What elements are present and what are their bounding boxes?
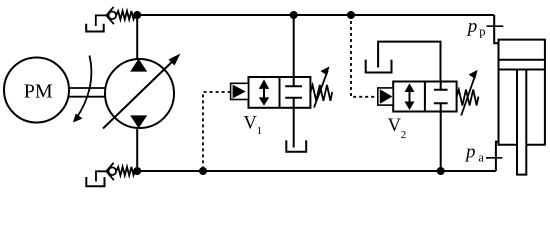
valve V2 drain tank (366, 60, 392, 73)
wire V2 bottom connect (440, 112, 442, 172)
valve V1 spring arrow head (321, 66, 330, 75)
node top pump junction (133, 11, 141, 19)
pump P1 circle (105, 59, 174, 128)
relief valve RV2 tank (86, 177, 104, 186)
valve V1 pilot line dashed (203, 92, 231, 171)
valve V2 body (393, 82, 456, 112)
valve V2 pilot line dashed (351, 15, 378, 97)
svg-text:1: 1 (257, 125, 263, 137)
relief valve RV2 spring (116, 167, 135, 176)
svg-text:p: p (479, 25, 485, 39)
valve V1 pilot box (231, 83, 249, 99)
relief valve RV1 tank (86, 24, 104, 32)
motor PM circle (4, 58, 69, 123)
valve V2 spring arrow head (469, 70, 478, 79)
valve V1 pilot triangle (233, 85, 246, 99)
pump triangle bottom (130, 115, 147, 128)
wire p_a port riser (496, 142, 500, 171)
pump diagonal arrow (103, 58, 177, 129)
valve V1 spring adjust arrow (314, 71, 328, 108)
node V2 pilot junction (347, 11, 355, 19)
relief valve RV2 drain wire (96, 171, 107, 181)
pump triangle top (130, 59, 147, 72)
relief valve RV1 ball (109, 12, 117, 20)
wire pump top (136, 15, 138, 60)
svg-text:p: p (466, 16, 478, 37)
valve V1 spring (310, 85, 332, 101)
wire p_p port drop (494, 15, 499, 43)
valve V1 arrow heads (259, 79, 269, 89)
node V2 bottom junction (437, 167, 445, 175)
valve V2 blocked ports (434, 82, 448, 112)
wire V2 drain to tank (378, 42, 440, 82)
valve V1 double arrow (263, 83, 265, 102)
relief valve RV1 spring (116, 11, 135, 20)
svg-text:V: V (244, 113, 258, 133)
pump arrow head (169, 54, 181, 66)
rotation arrow head (73, 114, 83, 123)
valve V1 blocked ports (285, 77, 302, 108)
valve V1 body (249, 77, 311, 108)
cylinder rod (517, 70, 526, 175)
shaft coupling (69, 88, 105, 97)
wire top rail (137, 14, 494, 16)
svg-text:PM: PM (24, 81, 53, 103)
relief valve RV1 drain wire (96, 15, 107, 26)
valve V2 arrow heads (405, 83, 415, 92)
svg-text:p: p (464, 142, 476, 163)
relief valve RV2 seat (106, 163, 114, 180)
valve V2 pilot triangle (380, 89, 393, 104)
svg-text:2: 2 (401, 129, 407, 141)
relief valve RV2 ball (109, 167, 117, 175)
cylinder piston (500, 60, 544, 70)
relief valve RV1 seat (106, 7, 114, 24)
node bottom pump junction (133, 167, 141, 175)
svg-text:a: a (478, 151, 484, 165)
valve V2 spring (457, 90, 479, 106)
wire V1 top connect (293, 15, 295, 77)
valve V2 double arrow (409, 88, 411, 106)
node V1 top junction (290, 11, 298, 19)
valve V2 pilot box (378, 88, 393, 105)
rotation arrow (76, 56, 92, 120)
node V1 pilot junction (199, 167, 207, 175)
wire pump bottom (136, 128, 138, 171)
port tick p_a (486, 157, 502, 159)
wire V1 bottom drain (293, 108, 295, 148)
port tick p_p (487, 25, 504, 27)
svg-text:V: V (388, 116, 402, 136)
wire bottom rail (137, 170, 496, 172)
cylinder barrel (499, 40, 545, 145)
valve V2 spring adjust arrow (461, 75, 475, 116)
valve V1 drain tank (286, 140, 306, 151)
